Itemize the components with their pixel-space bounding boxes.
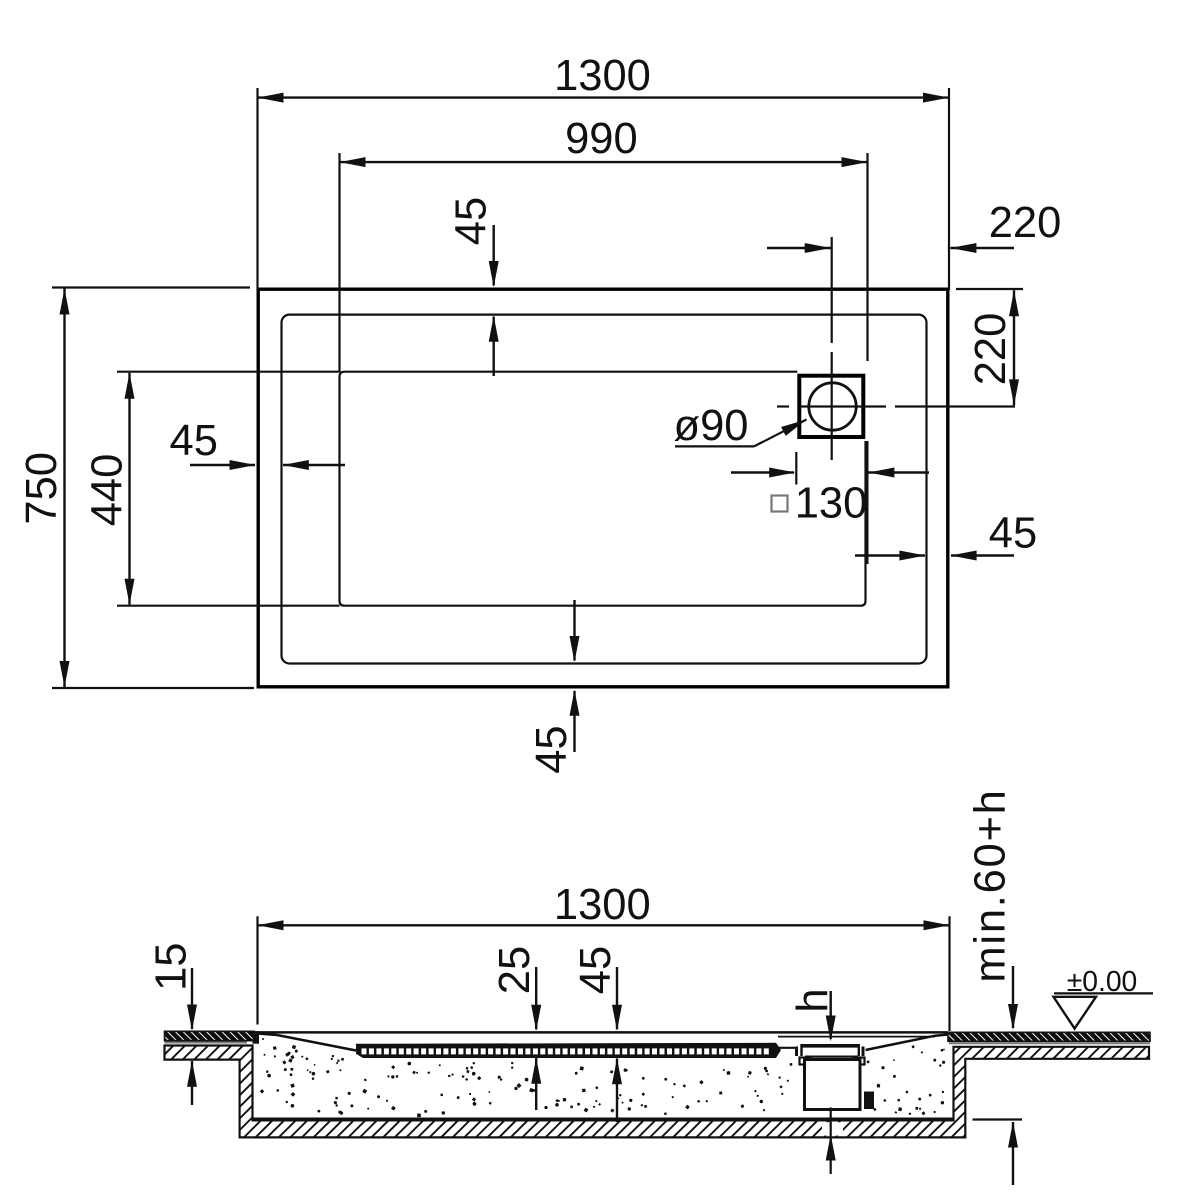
section: tray left rim block [253,1031,260,1044]
svg-text:25: 25 [491,946,539,994]
dimension 220 to drain center (top right, horizontal) [767,199,1061,253]
section: anti-slip dotted band [356,1043,781,1058]
dimension 1300 (top) [258,52,950,290]
svg-text:15: 15 [148,943,196,991]
section: tray bottom line [253,1117,954,1119]
dimension 45 rim top [447,197,498,376]
svg-text:min.60+h: min.60+h [967,788,1015,982]
svg-text:±0.00: ±0.00 [1067,965,1138,997]
section dimension 25 [491,946,541,1110]
drain vertical centerline [831,237,833,460]
section: tray surface slope left [258,1034,356,1051]
tray floor rounded rectangle (open at drain corner) [340,372,866,606]
section dimension 1300 [258,881,950,1031]
section level marker +-0.00 [1054,965,1154,1029]
svg-text:1300: 1300 [554,881,651,929]
svg-text:130: 130 [795,479,868,527]
dimension 45 rim left [170,417,345,470]
section: drain body [800,1058,865,1110]
dimension 220 to drain center (right edge, vertical) [956,289,1023,405]
section: tray rim level line [254,1032,948,1036]
section: drain grate [797,1044,864,1057]
drain circle o90 [809,383,856,430]
dimension 990 [340,115,868,372]
svg-text:220: 220 [989,199,1062,247]
svg-text:45: 45 [572,946,620,994]
section: mortar speckles [260,1038,945,1117]
section: concrete recess with hatch [165,1046,1150,1138]
section: tray surface slope right [866,1035,949,1051]
dimension 750 [18,288,254,689]
section: right membrane line [949,1042,1150,1044]
dimension square 130 drain flange [731,441,929,564]
drain square flange [799,376,863,437]
section dimension h at grate [789,988,837,1041]
section dimension 15 [148,943,198,1105]
svg-text:45: 45 [447,197,495,245]
section: drain outlet stub [864,1092,874,1110]
svg-text:220: 220 [967,313,1015,386]
section: right floor finish strip [948,1032,1150,1041]
svg-text:ø90: ø90 [674,402,749,450]
outer rim rectangle (tray outline 1300x750) [258,289,948,687]
svg-text:440: 440 [84,454,132,527]
section dimension min.60+h [967,788,1023,1185]
section dimension 45 [572,946,622,1122]
section: surface line to drain [775,1047,798,1049]
svg-text:990: 990 [565,115,638,163]
svg-text:45: 45 [528,725,576,773]
section: left floor finish strip [165,1031,255,1040]
svg-text:45: 45 [989,510,1037,558]
dimension 440 [84,372,340,606]
section drain centerline below body [826,1108,836,1175]
drain horizontal centerline [777,405,1015,407]
svg-text:45: 45 [170,417,218,465]
leader o90 [674,402,807,450]
section: left membrane line [165,1042,248,1044]
svg-text:750: 750 [18,452,66,525]
dimension 45 rim right [855,510,1037,561]
svg-text:1300: 1300 [554,52,651,100]
inner rim edge rounded rectangle [282,315,927,664]
dimension 45 rim bottom [528,600,579,774]
